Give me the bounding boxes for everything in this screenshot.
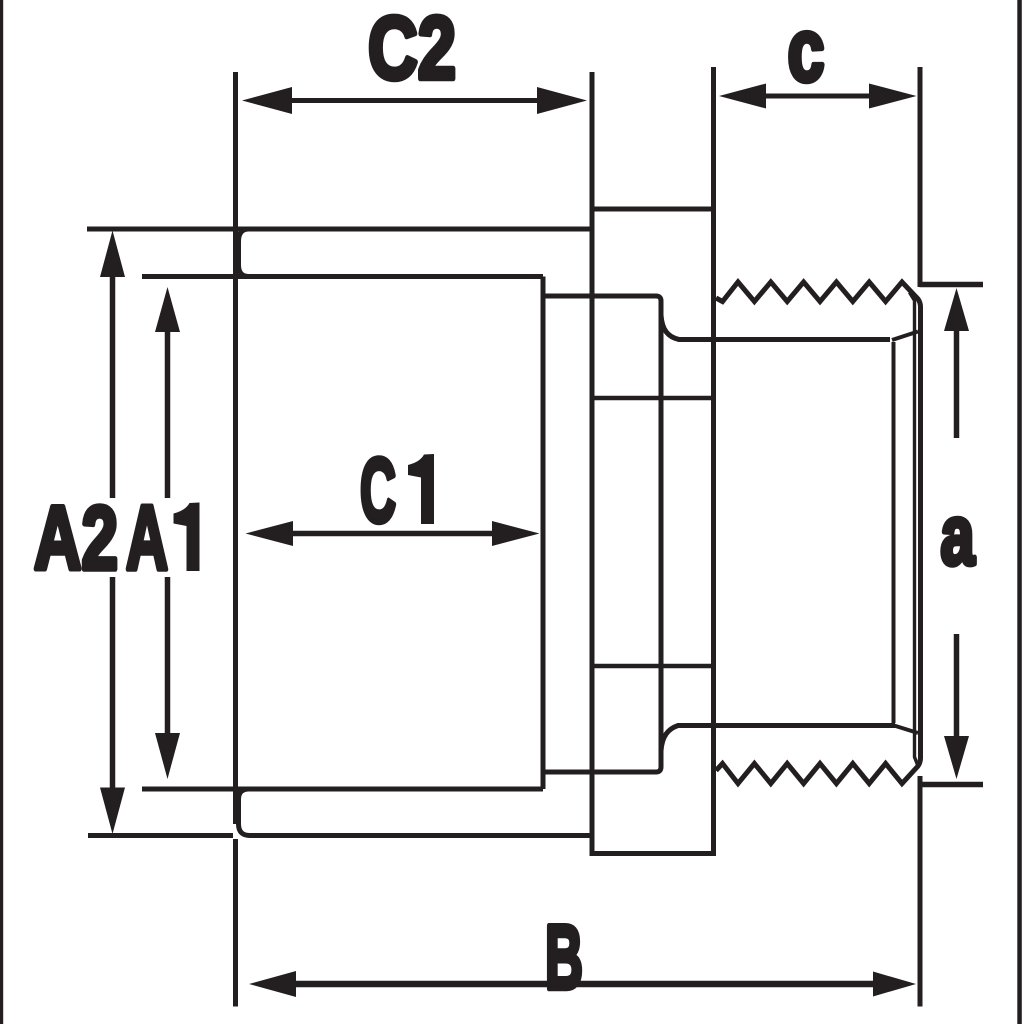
dimension A2 shafts xyxy=(110,275,116,498)
arrowhead c left xyxy=(719,84,766,109)
dimension a tick top (y=284.5) xyxy=(920,282,984,288)
dimension B shaft xyxy=(294,981,875,988)
arrowhead A1 up xyxy=(155,287,180,332)
thread outline: top zigzag, end cap, bottom zigzag xyxy=(716,282,921,784)
fillet + thread root top line (y=339.5) xyxy=(661,315,890,340)
hex flange top edge (y=209) xyxy=(590,207,717,212)
extension line left (C2/B at x=235) xyxy=(233,72,238,824)
arrowhead B right xyxy=(873,972,916,997)
svg-text:C2: C2 xyxy=(368,0,456,98)
arrowhead A2 up xyxy=(100,231,125,278)
extension line c-left / hex right edge (x=713.5) xyxy=(711,67,716,856)
arrowhead A1 down xyxy=(155,733,180,779)
socket mouth rounded lip top-left xyxy=(239,229,261,277)
root end chamfer diagonal top xyxy=(892,332,918,341)
arrowhead C2 right xyxy=(537,87,587,114)
svg-text:C: C xyxy=(360,441,396,542)
arrowhead c right xyxy=(869,84,917,109)
dimension C1 shaft xyxy=(291,531,493,537)
socket mouth rounded lip bottom-left xyxy=(239,789,261,836)
arrowhead a up xyxy=(944,288,969,331)
arrowhead C2 left xyxy=(242,87,292,114)
svg-text:B: B xyxy=(545,908,583,1009)
arrowhead C1 left xyxy=(246,521,294,546)
svg-text:A: A xyxy=(126,488,168,589)
socket inner bottom line + A1 bottom extension (y=787.5) xyxy=(142,787,543,792)
socket floor (x=542) xyxy=(541,277,546,790)
hex flange bottom edge (y=853.5) xyxy=(590,851,717,856)
page left border xyxy=(0,0,3,1024)
socket outer bottom edge + A2 bottom extension (y=834) xyxy=(88,833,233,838)
dimension a tick bottom (y=784.5) xyxy=(920,782,984,788)
arrowhead C1 right xyxy=(492,521,540,546)
socket inner top line + A1 top extension (y=276.5) xyxy=(142,274,543,279)
thread runout face (x=893.5) xyxy=(892,342,896,723)
end chamfer inner line (x=914) xyxy=(910,293,919,767)
page right border xyxy=(1017,0,1022,1024)
svg-text:c: c xyxy=(788,0,825,99)
dimension a shafts xyxy=(954,329,960,438)
bore step: top line, vertical x=661, bottom line xyxy=(543,296,661,772)
extension line C2-right / hex left edge (x=592) xyxy=(590,72,595,856)
arrowhead B left xyxy=(249,971,296,997)
hex flat line upper (y=398) xyxy=(592,396,714,401)
extension line c-right / thread end face / B-right (x=920) xyxy=(918,67,923,287)
fillet + thread root bottom line (y=725.5) xyxy=(661,726,895,752)
root end chamfer diagonal bottom xyxy=(894,726,918,734)
dimension C2 shaft xyxy=(287,98,543,103)
dimension A1 shafts xyxy=(165,330,171,498)
arrowhead a down xyxy=(944,736,969,779)
socket outer top edge + A2 top extension (y=229) xyxy=(87,227,592,232)
svg-text:A2: A2 xyxy=(34,489,118,589)
arrowhead A2 down xyxy=(100,788,125,835)
dimension c shaft xyxy=(764,94,871,99)
svg-text:a: a xyxy=(941,488,976,582)
hex flat line lower (y=666) xyxy=(592,664,714,669)
